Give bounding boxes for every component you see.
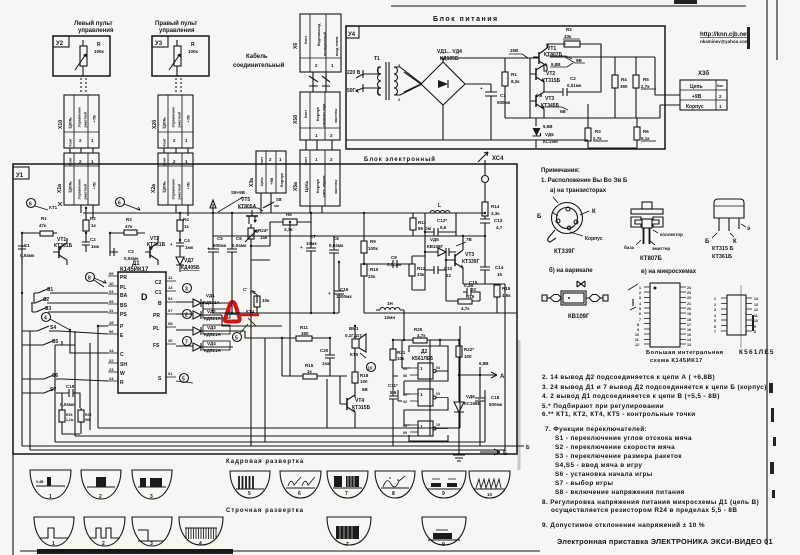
svg-text:8. Регулировка напряжения пи: 8. Регулировка напряжения питания микрос… [542, 499, 759, 506]
svg-text:13: 13 [754, 303, 758, 307]
svg-text:S4: S4 [50, 325, 56, 331]
svg-text:SH: SH [120, 362, 127, 368]
svg-text:10мк: 10мк [306, 241, 317, 246]
svg-text:+7В: +7В [92, 115, 97, 123]
scope pictogram S7 [327, 517, 371, 545]
svg-text:+: + [480, 86, 483, 91]
gate D2.1 [418, 363, 433, 379]
collector rail 9V [533, 44, 547, 71]
svg-text:Большая интегральная: Большая интегральная [646, 350, 724, 356]
svg-text:4,7: 4,7 [496, 225, 503, 230]
svg-text:2: 2 [99, 494, 102, 500]
svg-text:11: 11 [754, 314, 758, 318]
svg-text:R10: R10 [370, 267, 379, 272]
svg-text:1: 1 [714, 297, 716, 301]
svg-text:15: 15 [687, 333, 691, 337]
svg-text:VT3: VT3 [465, 252, 474, 258]
svg-text:Кабель: Кабель [246, 53, 268, 60]
net B bus [22, 445, 524, 447]
potentiometer R 100k (U2) [80, 46, 87, 66]
svg-text:C2: C2 [155, 280, 162, 286]
svg-text:КТ361Б: КТ361Б [712, 254, 732, 260]
svg-text:10: 10 [436, 423, 440, 427]
mid horizontal wires [203, 303, 517, 376]
svg-text:9. Допустимое отклонение нап: 9. Допустимое отклонение напряжений ± 10… [542, 521, 705, 529]
svg-text:Кадровая развертка: Кадровая развертка [226, 459, 304, 465]
svg-text:С2: С2 [90, 237, 96, 242]
svg-text:VД5: VД5 [545, 132, 554, 137]
svg-text:0-4В: 0-4В [36, 480, 44, 484]
svg-text:18: 18 [687, 318, 691, 322]
svg-text:КТ315Б: КТ315Б [352, 405, 371, 411]
svg-text:Цепь: Цепь [690, 84, 703, 90]
svg-text:Корпус: Корпус [686, 104, 704, 110]
svg-text:S8 - включение напряжения пи: S8 - включение напряжения питания [555, 489, 685, 496]
wire bridge to rails [443, 58, 533, 140]
svg-text:1: 1 [639, 286, 641, 290]
svg-text:http://knn.cjb.net: http://knn.cjb.net [700, 32, 748, 38]
svg-text:Х3б: Х3б [698, 70, 709, 77]
circled node 6 (X2a) [116, 198, 125, 207]
svg-text:Левый пульт: Левый пульт [74, 20, 113, 27]
svg-text:10мн: 10мн [384, 315, 395, 320]
circled node 7 [183, 337, 192, 346]
svg-text:20: 20 [687, 307, 691, 311]
diode VD4 KD521A [203, 341, 230, 350]
svg-text:Цепь: Цепь [162, 181, 167, 193]
switch S4 [33, 326, 59, 331]
svg-text:47к: 47к [125, 224, 133, 229]
svg-text:Конт: Конт [69, 157, 73, 165]
svg-text:19: 19 [109, 320, 114, 325]
svg-text:С19: С19 [66, 384, 75, 389]
svg-text:15В: 15В [510, 48, 519, 53]
connector X3a [249, 151, 286, 193]
block U1 box [13, 164, 517, 454]
svg-text:VT3: VT3 [545, 96, 554, 102]
svg-text:Цепь: Цепь [68, 181, 73, 193]
svg-text:5: 5 [248, 491, 251, 497]
svg-text:7: 7 [185, 340, 188, 346]
wires to X3b [655, 95, 680, 118]
svg-text:R9: R9 [370, 239, 376, 244]
svg-text:R4: R4 [183, 217, 189, 222]
svg-text:Д2: Д2 [421, 349, 428, 355]
svg-text:Управление: Управление [78, 179, 82, 200]
resistor R5 2.7k [635, 57, 637, 75]
svg-text:R6: R6 [286, 212, 292, 217]
svg-text:1. Расположение Вы Во Эв Б: 1. Расположение Вы Во Эв Б [541, 178, 628, 184]
sheet left border [12, 164, 14, 555]
svg-text:3,3к: 3,3к [491, 211, 500, 216]
svg-text:14: 14 [754, 297, 758, 301]
svg-text:7: 7 [639, 318, 641, 322]
svg-text:R12: R12 [417, 266, 426, 271]
svg-text:15: 15 [497, 272, 503, 277]
svg-text:20: 20 [168, 338, 173, 343]
svg-text:К: К [592, 209, 596, 215]
svg-text:С5: С5 [217, 236, 223, 241]
svg-text:схема К145ИК17: схема К145ИК17 [650, 358, 703, 364]
svg-text:10: 10 [487, 492, 493, 497]
svg-text:9,8В: 9,8В [551, 62, 561, 67]
svg-text:С12*: С12* [437, 218, 447, 223]
ground symbol [453, 446, 465, 461]
svg-text:VД4: VД4 [207, 341, 216, 346]
circled node 4 [42, 313, 51, 322]
scope pictogram K2 [81, 470, 121, 499]
svg-text:R6: R6 [643, 129, 649, 134]
svg-text:Управление: Управление [78, 107, 82, 128]
svg-text:22: 22 [471, 287, 477, 292]
svg-text:Т1: Т1 [374, 56, 380, 62]
svg-text:С2: С2 [570, 76, 576, 81]
svg-text:22: 22 [446, 273, 452, 278]
svg-text:1: 1 [49, 494, 52, 500]
scope pictogram K10 [469, 471, 510, 498]
oscillator resistor R11 56 [412, 213, 414, 218]
svg-text:8: 8 [88, 276, 91, 282]
svg-text:7: 7 [345, 491, 348, 497]
circled node 2 [183, 310, 192, 319]
svg-text:ВМ1: ВМ1 [349, 326, 359, 331]
svg-text:6: 6 [639, 312, 641, 316]
switch wires to IC [22, 233, 108, 446]
svg-text:02: 02 [403, 400, 407, 404]
svg-text:0,04мк: 0,04мк [124, 256, 139, 261]
svg-text:nkaminev@yahoo.com: nkaminev@yahoo.com [700, 39, 749, 44]
sheet right border [766, 0, 768, 545]
svg-text:ракеткой: ракеткой [84, 184, 88, 199]
svg-text:BS: BS [120, 303, 128, 309]
svg-text:Х6: Х6 [293, 43, 299, 49]
svg-text:S8: S8 [276, 197, 282, 202]
switch S7 [40, 388, 60, 393]
svg-text:+9В: +9В [692, 94, 702, 100]
connector X5b [292, 92, 340, 140]
svg-text:500мк: 500мк [497, 100, 511, 105]
svg-text:Кон: Кон [717, 84, 723, 88]
svg-text:4,7к: 4,7к [417, 333, 426, 338]
svg-text:33к: 33к [417, 272, 425, 277]
IC package K145IK17 [628, 283, 724, 364]
svg-text:13: 13 [687, 343, 691, 347]
svg-text:05: 05 [109, 299, 114, 304]
svg-text:7. Функции переключателей:: 7. Функции переключателей: [545, 425, 647, 433]
svg-text:частоты: частоты [334, 180, 338, 194]
circled node 5 (S pin) [180, 374, 189, 383]
svg-text:Видеовыход: Видеовыход [317, 23, 321, 46]
svg-text:50Гц: 50Гц [347, 88, 359, 94]
svg-text:10: 10 [635, 333, 639, 337]
bottom loop wires [30, 313, 505, 450]
svg-text:500мк: 500мк [213, 243, 227, 248]
svg-text:КВ109Г: КВ109Г [568, 314, 590, 320]
svg-text:22к: 22к [368, 274, 376, 279]
svg-text:С6: С6 [236, 236, 242, 241]
transistor case KT315B [705, 199, 751, 260]
svg-text:5,1к: 5,1к [641, 136, 650, 141]
svg-text:08: 08 [168, 321, 173, 326]
circled node 3 [183, 284, 192, 293]
svg-text:14: 14 [687, 338, 691, 342]
svg-text:6: 6 [29, 202, 32, 208]
scope pictogram K5 [230, 471, 270, 498]
svg-text:коллектор: коллектор [660, 232, 683, 237]
svg-text:S3: S3 [45, 306, 51, 312]
svg-text:R16: R16 [466, 294, 475, 299]
svg-text:КД521А: КД521А [204, 332, 221, 337]
svg-text:КТ315 Б: КТ315 Б [712, 246, 734, 252]
svg-text:5: 5 [714, 319, 716, 323]
svg-text:Х5б: Х5б [292, 115, 299, 124]
svg-text:S5: S5 [52, 339, 58, 345]
resistor R3 2.7k [587, 104, 589, 128]
resistor R14 3.3k [482, 202, 488, 216]
svg-text:15к: 15к [260, 235, 268, 240]
svg-text:Конт: Конт [163, 157, 167, 165]
svg-text:22: 22 [687, 296, 691, 300]
arrow up node [210, 200, 216, 213]
svg-text:Б: Б [705, 239, 710, 245]
svg-text:R1: R1 [511, 72, 517, 77]
resistor R12 33k [409, 264, 415, 276]
switch S1 [34, 288, 57, 293]
scope pictogram S2 [84, 517, 125, 546]
svg-text:14: 14 [168, 285, 173, 290]
block U2 [53, 36, 110, 76]
svg-text:7В: 7В [466, 237, 473, 242]
net A arrow [459, 372, 497, 378]
svg-text:0,04мк: 0,04мк [232, 243, 247, 248]
svg-text:К: К [733, 239, 737, 245]
wire stubs under connectors [81, 193, 322, 218]
svg-text:КТ315Б: КТ315Б [542, 78, 561, 84]
svg-text:4. 2 вывод Д1 подсоединяется: 4. 2 вывод Д1 подсоединяется к цепи В (+… [542, 393, 720, 400]
wire X1b to X1a [70, 148, 93, 153]
svg-text:B: B [158, 301, 162, 307]
svg-text:У2: У2 [56, 41, 64, 47]
connector X1a [57, 153, 99, 205]
svg-text:4: 4 [199, 541, 202, 547]
svg-text:2,7к: 2,7к [593, 136, 602, 141]
svg-text:Конт: Конт [304, 36, 308, 44]
svg-text:PL: PL [153, 326, 159, 332]
scope pictogram K9 [422, 471, 466, 498]
svg-text:5.* Подбирают при регулирова: 5.* Подбирают при регулировании [542, 402, 664, 410]
svg-text:1к: 1к [91, 223, 97, 228]
svg-text:+9В: +9В [269, 177, 274, 185]
svg-text:5,6В: 5,6В [543, 124, 553, 129]
svg-text:1к: 1к [307, 369, 313, 374]
svg-text:09: 09 [403, 431, 407, 435]
svg-text:9: 9 [637, 328, 639, 332]
svg-text:КТ1: КТ1 [49, 205, 58, 210]
svg-text:Конт: Конт [304, 110, 308, 118]
svg-text:W: W [120, 371, 125, 377]
svg-text:Корпус: Корпус [315, 178, 320, 193]
svg-text:Конт: Конт [69, 138, 73, 146]
svg-text:Корпус: Корпус [315, 106, 320, 121]
svg-text:100к: 100к [188, 49, 199, 54]
svg-text:С13: С13 [494, 218, 503, 223]
svg-text:Х1а: Х1а [57, 184, 63, 193]
svg-text:390: 390 [620, 84, 628, 89]
svg-text:Управление: Управление [172, 179, 176, 200]
svg-text:R15: R15 [305, 363, 314, 368]
resistor R23 560 [78, 410, 84, 422]
svg-text:Электронная приставка ЭЛЕКТРОН: Электронная приставка ЭЛЕКТРОНИКА ЭКСИ-В… [557, 537, 773, 546]
svg-text:А: А [500, 374, 505, 380]
svg-text:3: 3 [150, 494, 153, 500]
svg-text:D: D [141, 292, 148, 302]
svg-text:PS: PS [120, 312, 127, 318]
svg-text:1мк: 1мк [185, 245, 194, 250]
svg-text:Управление: Управление [172, 107, 176, 128]
svg-text:2: 2 [102, 541, 105, 547]
svg-text:5: 5 [639, 307, 641, 311]
svg-text:10: 10 [109, 281, 114, 286]
svg-text:9: 9 [754, 325, 756, 329]
svg-text:VД3: VД3 [207, 325, 216, 330]
svg-text:У3: У3 [155, 41, 163, 47]
svg-text:R: R [120, 380, 124, 386]
scope pictogram S1 [34, 517, 74, 546]
svg-text:КВ109Г: КВ109Г [427, 244, 444, 249]
svg-text:КТ807Б: КТ807Б [640, 256, 662, 262]
svg-text:С': С' [243, 287, 247, 292]
resistor R8 [256, 296, 258, 303]
svg-text:R1: R1 [41, 216, 47, 221]
svg-text:01: 01 [168, 371, 173, 376]
svg-text:0,01мк: 0,01мк [567, 83, 582, 88]
svg-text:0,8: 0,8 [536, 93, 543, 98]
power block U4 box [346, 26, 665, 149]
svg-text:база: база [624, 244, 635, 250]
gate wiring loops [398, 340, 448, 425]
svg-text:3: 3 [714, 308, 716, 312]
svg-text:24: 24 [109, 376, 114, 381]
svg-text:BA: BA [120, 293, 128, 299]
svg-text:12: 12 [635, 343, 639, 347]
resistor R18 100 [352, 372, 358, 383]
svg-text:R: R [97, 42, 101, 48]
svg-text:КД405Б: КД405Б [181, 265, 200, 271]
svg-text:1мк: 1мк [91, 244, 100, 249]
svg-text:R20: R20 [414, 327, 423, 332]
svg-text:Б: Б [537, 214, 542, 220]
test point KT1 [35, 206, 48, 210]
svg-text:VД1: VД1 [206, 293, 215, 298]
svg-text:Х2б: Х2б [151, 120, 158, 129]
cable plugs between X6 and X5b [309, 72, 330, 92]
svg-text:4: 4 [639, 302, 641, 306]
wire U3 to X2b [176, 78, 181, 94]
svg-text:5,6: 5,6 [440, 225, 447, 230]
svg-text:К561ЛЕ5: К561ЛЕ5 [739, 349, 775, 356]
svg-text:Цепь: Цепь [162, 117, 167, 129]
scope pictogram S3 [132, 517, 172, 546]
svg-text:FS: FS [153, 343, 160, 349]
resistor R1 8.2k [504, 58, 506, 72]
resistor R24 15k tunable [250, 224, 252, 228]
svg-text:12: 12 [754, 308, 758, 312]
svg-text:Строчная развертка: Строчная развертка [226, 508, 304, 514]
diode VD3 KD521A [203, 325, 230, 334]
svg-text:Х1б: Х1б [57, 120, 64, 129]
svg-text:+: + [300, 245, 303, 250]
svg-text:100: 100 [464, 354, 472, 359]
svg-text:8: 8 [637, 323, 639, 327]
svg-text:VД6: VД6 [466, 394, 475, 399]
svg-text:PR: PR [153, 313, 160, 319]
svg-text:1Н: 1Н [387, 301, 393, 306]
svg-text:Корпус: Корпус [279, 172, 284, 187]
svg-text:Правый пульт: Правый пульт [155, 20, 197, 27]
svg-text:3. 24 вывод Д1 и 7 вывод Д2 по: 3. 24 вывод Д1 и 7 вывод Д2 подсоединяет… [542, 384, 767, 391]
svg-text:6.** КТ1, КТ2, КТ4, КТ5 - конт: 6.** КТ1, КТ2, КТ4, КТ5 - контрольные то… [542, 411, 696, 418]
svg-text:L: L [438, 203, 441, 209]
svg-text:С4: С4 [184, 238, 190, 243]
svg-text:КД521А: КД521А [204, 316, 221, 321]
svg-text:мкм: мкм [631, 299, 635, 306]
svg-text:390: 390 [301, 331, 309, 336]
svg-text:06: 06 [403, 374, 407, 378]
svg-text:03: 03 [109, 289, 114, 294]
connector X2a [151, 153, 193, 205]
svg-text:управления: управления [78, 28, 114, 34]
svg-text:S2 - переключение скорости м: S2 - переключение скорости мяча [555, 444, 675, 451]
svg-text:7: 7 [714, 330, 716, 334]
transistor case KT807B [624, 202, 683, 262]
svg-text:6: 6 [298, 491, 301, 497]
svg-text:6В: 6В [560, 109, 567, 114]
svg-text:R4: R4 [621, 77, 627, 82]
switch S3 [32, 307, 57, 312]
base feed rail [529, 58, 531, 118]
wire X5b to X5a [306, 140, 332, 150]
svg-text:PL: PL [120, 285, 126, 291]
svg-text:PR: PR [120, 275, 127, 281]
svg-text:позиционный: позиционный [323, 32, 327, 56]
svg-text:Х5а: Х5а [293, 182, 299, 191]
junction dots [21, 207, 486, 376]
svg-text:R21: R21 [397, 350, 406, 355]
svg-text:R18: R18 [360, 373, 369, 378]
svg-text:S4,S5 - ввод мяча в игру: S4,S5 - ввод мяча в игру [555, 462, 642, 469]
svg-text:2: 2 [639, 291, 641, 295]
svg-text:R5: R5 [643, 77, 649, 82]
svg-text:VT5: VT5 [241, 197, 250, 203]
svg-text:R22*: R22* [464, 347, 474, 352]
svg-text:Б: Б [526, 445, 530, 451]
svg-text:9: 9 [442, 542, 445, 548]
svg-text:сигналы звук.: сигналы звук. [322, 103, 326, 127]
svg-text:2,7к: 2,7к [641, 84, 650, 89]
svg-text:R2: R2 [90, 216, 96, 221]
svg-text:100: 100 [360, 379, 368, 384]
svg-text:C: C [120, 352, 124, 358]
svg-text:24: 24 [687, 286, 691, 290]
capacitor C1 500mk [485, 84, 497, 140]
scan edge marks right margin [747, 27, 776, 498]
svg-text:S1: S1 [47, 287, 53, 293]
svg-text:VД1... VД4: VД1... VД4 [437, 49, 462, 55]
svg-text:VT2: VT2 [546, 71, 555, 77]
svg-text:Х3а: Х3а [249, 178, 255, 187]
svg-text:S7 - выбор игры: S7 - выбор игры [555, 479, 614, 487]
svg-text:S1 - переключение углов отск: S1 - переключение углов отскока мяча [555, 435, 692, 442]
